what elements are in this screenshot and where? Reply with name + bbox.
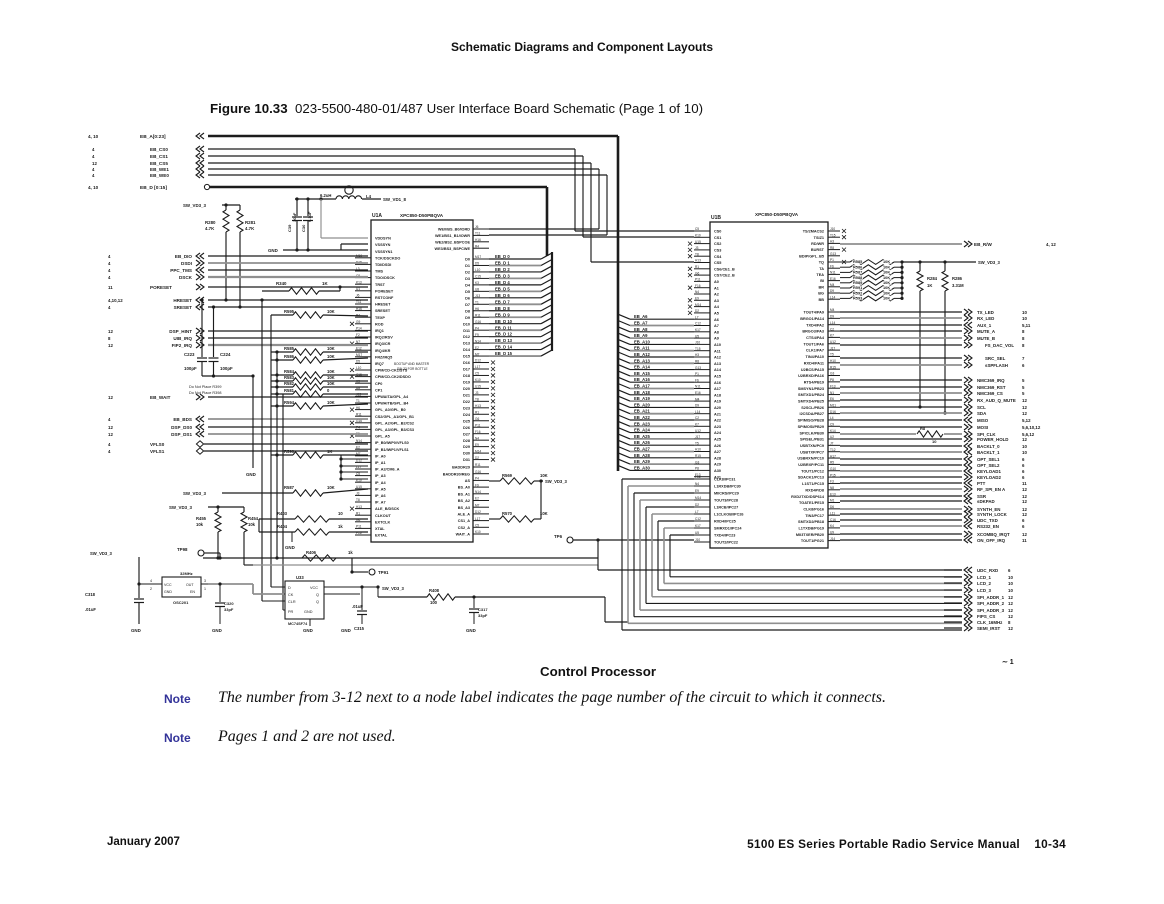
svg-text:EB_WAIT: EB_WAIT: [150, 395, 171, 400]
wire EB_A23: [630, 425, 694, 427]
net label NMC369_RST: [840, 386, 962, 388]
svg-text:GPL_A3/GPL_B3/CS3: GPL_A3/GPL_B3/CS3: [375, 428, 414, 432]
svg-text:RX_LED: RX_LED: [977, 316, 994, 321]
svg-text:IRQ7: IRQ7: [375, 362, 384, 366]
svg-text:4: 4: [108, 449, 111, 454]
svg-text:GND: GND: [285, 545, 295, 550]
svg-text:K3: K3: [475, 281, 479, 285]
svg-text:C320: C320: [224, 601, 234, 606]
svg-text:10K: 10K: [327, 354, 335, 359]
svg-text:D9: D9: [465, 316, 470, 320]
svg-text:E16: E16: [695, 391, 701, 395]
wire EB_CS0 to U1B: [575, 230, 694, 232]
svg-text:EB_A22: EB_A22: [634, 415, 650, 420]
svg-text:1k: 1k: [348, 550, 353, 555]
svg-text:F13: F13: [830, 384, 836, 388]
svg-text:100pF: 100pF: [184, 366, 197, 371]
svg-text:4.7K: 4.7K: [245, 226, 255, 231]
svg-text:T8: T8: [356, 498, 360, 502]
svg-text:U5: U5: [695, 334, 699, 338]
net label FS_DAC_VOL: [840, 344, 962, 346]
svg-text:M4: M4: [830, 283, 835, 287]
svg-text:EB_A30: EB_A30: [634, 465, 650, 470]
wire EB_A21: [630, 413, 694, 415]
svg-text:0: 0: [327, 388, 330, 393]
wire osc out: [208, 583, 253, 585]
svg-text:D22: D22: [463, 400, 470, 404]
wire rail B: [270, 315, 272, 587]
svg-text:M17: M17: [356, 353, 362, 357]
svg-text:A23: A23: [714, 425, 721, 429]
svg-text:E12: E12: [356, 346, 362, 350]
wire EB_D10: [489, 323, 541, 325]
svg-text:C2: C2: [830, 327, 834, 331]
svg-text:11: 11: [1022, 538, 1027, 543]
net label KEYLOAD1: [840, 470, 962, 472]
svg-text:CLK1/PA7: CLK1/PA7: [806, 349, 824, 353]
svg-text:1k: 1k: [338, 524, 343, 529]
svg-text:KEYLOAD2: KEYLOAD2: [977, 475, 1001, 480]
bus join EB_A19: [618, 396, 630, 401]
wire EB_A20: [630, 406, 694, 408]
wire EB_A bus horizontal: [208, 135, 618, 138]
svg-text:A26: A26: [714, 444, 721, 448]
svg-text:5: 5: [1022, 391, 1025, 396]
op IC U1A outline: [371, 220, 473, 542]
svg-text:R596: R596: [284, 449, 295, 454]
svg-text:D10: D10: [463, 322, 470, 326]
svg-text:4: 4: [92, 147, 95, 152]
svg-text:EB_D 12: EB_D 12: [495, 332, 513, 337]
svg-text:D6: D6: [830, 505, 834, 509]
wire EB_D11: [489, 329, 541, 331]
svg-text:R5: R5: [830, 461, 834, 465]
svg-text:R1: R1: [356, 511, 360, 515]
svg-text:D16: D16: [463, 361, 470, 365]
svg-text:R8: R8: [920, 426, 926, 431]
svg-text:XPC850-D50PBQVA: XPC850-D50PBQVA: [755, 212, 799, 217]
svg-text:TDO/DSCK: TDO/DSCK: [375, 276, 395, 280]
svg-text:BS_A0: BS_A0: [458, 486, 470, 490]
bus join EB_A21: [618, 409, 630, 414]
svg-text:D3: D3: [465, 277, 470, 281]
svg-text:12: 12: [1022, 512, 1027, 517]
svg-text:TS/2MACS2: TS/2MACS2: [803, 230, 824, 234]
svg-text:USBTXN/PC9: USBTXN/PC9: [800, 444, 824, 448]
svg-text:12: 12: [1008, 626, 1013, 631]
svg-text:BG: BG: [818, 292, 824, 296]
svg-text:EB_D 10: EB_D 10: [495, 319, 513, 324]
resistor R591: [840, 287, 850, 289]
svg-text:D6: D6: [465, 296, 470, 300]
svg-text:SPI_ADDR_3: SPI_ADDR_3: [977, 608, 1005, 613]
svg-text:H13: H13: [695, 259, 701, 263]
svg-text:L10: L10: [475, 268, 481, 272]
svg-text:EB_D 7: EB_D 7: [495, 299, 510, 304]
wire bundle 0: [622, 478, 694, 480]
bus join EB_D3: [541, 272, 552, 278]
svg-text:L14: L14: [830, 295, 836, 299]
svg-text:5,12: 5,12: [1022, 418, 1031, 423]
svg-text:12: 12: [1022, 405, 1027, 410]
svg-text:FIPS_CS: FIPS_CS: [977, 614, 995, 619]
wire EB_D bus horizontal: [210, 186, 547, 189]
wire EB_D0: [489, 258, 541, 260]
svg-text:U5: U5: [695, 531, 699, 535]
bus join EB_D10: [541, 318, 552, 324]
svg-text:EB_A17: EB_A17: [634, 384, 650, 389]
wire EB_A8: [630, 331, 694, 333]
svg-text:R595: R595: [284, 309, 295, 314]
svg-text:4: 4: [150, 579, 152, 583]
footer left: [107, 836, 180, 848]
wire EB_A30: [630, 469, 694, 471]
svg-text:D1: D1: [465, 264, 470, 268]
svg-text:VCC: VCC: [164, 583, 172, 587]
svg-text:C318: C318: [85, 592, 96, 597]
svg-text:E2: E2: [475, 346, 479, 350]
svg-text:N7: N7: [356, 340, 360, 344]
bus join EB_A16: [618, 377, 630, 382]
wire EB_A12: [630, 356, 694, 358]
svg-text:U9: U9: [830, 530, 834, 534]
svg-text:N11: N11: [695, 385, 701, 389]
svg-text:H10: H10: [695, 448, 701, 452]
wire EB_CS1 to U1B: [583, 236, 694, 238]
svg-text:A30: A30: [714, 469, 721, 473]
svg-text:EB_A10: EB_A10: [634, 339, 650, 344]
svg-text:ALE_B/DSCK: ALE_B/DSCK: [375, 507, 400, 511]
svg-text:FIP2_IRQ: FIP2_IRQ: [172, 343, 193, 348]
svg-text:M14: M14: [475, 449, 481, 453]
svg-text:CS3: CS3: [714, 249, 721, 253]
net label XCOMBQ_IRQT: [840, 533, 962, 535]
svg-text:CS1_A: CS1_A: [458, 519, 470, 523]
bus join EB_D8: [541, 305, 552, 311]
resistor R592: [840, 292, 850, 294]
svg-text:IP_A0: IP_A0: [375, 454, 386, 458]
svg-text:UDC_RXD: UDC_RXD: [977, 568, 998, 573]
net label sDKPAD: [840, 500, 962, 502]
svg-text:SRC_SEL: SRC_SEL: [985, 356, 1006, 361]
svg-text:4: 4: [108, 442, 111, 447]
net label TX_LED: [840, 311, 962, 313]
svg-text:R570: R570: [502, 511, 513, 516]
net label SEMI_IRST: [964, 625, 972, 631]
svg-text:K17: K17: [695, 524, 701, 528]
net label OPT_SEL1: [840, 458, 962, 460]
svg-text:F16: F16: [475, 430, 481, 434]
svg-text:IP_B0/IWP0/VFLS0: IP_B0/IWP0/VFLS0: [375, 441, 409, 445]
svg-text:T5: T5: [830, 353, 834, 357]
svg-text:IP_A3: IP_A3: [375, 474, 386, 478]
svg-text:D14: D14: [463, 348, 471, 352]
svg-text:R586: R586: [284, 354, 295, 359]
svg-text:P4: P4: [356, 426, 360, 430]
svg-text:HRESET: HRESET: [375, 303, 391, 307]
svg-text:T12: T12: [830, 448, 836, 452]
svg-text:T1: T1: [475, 300, 479, 304]
svg-text:RD/WR: RD/WR: [811, 242, 824, 246]
svg-text:D0: D0: [465, 258, 470, 262]
svg-text:K7: K7: [830, 334, 834, 338]
svg-text:NMC369_CS: NMC369_CS: [977, 391, 1003, 396]
svg-text:BRGO1/PA14: BRGO1/PA14: [800, 317, 825, 321]
svg-text:D11: D11: [463, 329, 470, 333]
svg-text:R11: R11: [356, 412, 362, 416]
svg-text:D24: D24: [463, 413, 471, 417]
svg-text:T8: T8: [695, 252, 699, 256]
svg-text:C15: C15: [475, 275, 481, 279]
svg-text:32MHz: 32MHz: [180, 571, 193, 576]
svg-text:J14: J14: [830, 537, 835, 541]
svg-text:L1RXDB/IPC30: L1RXDB/IPC30: [714, 485, 741, 489]
svg-text:N4: N4: [475, 436, 479, 440]
svg-text:CS2: CS2: [714, 242, 721, 246]
svg-text:R593: R593: [853, 296, 863, 301]
svg-text:IRQ2/RSV: IRQ2/RSV: [375, 336, 393, 340]
svg-text:PORESET: PORESET: [375, 289, 394, 293]
svg-text:RTS4/PB19: RTS4/PB19: [804, 380, 824, 384]
svg-text:K10: K10: [475, 378, 481, 382]
svg-text:L14: L14: [830, 321, 836, 325]
svg-text:EXTCLK: EXTCLK: [375, 520, 390, 524]
svg-text:L1CLKOB/IPC26: L1CLKOB/IPC26: [714, 513, 744, 517]
svg-text:M4: M4: [695, 397, 700, 401]
svg-text:D29: D29: [463, 445, 470, 449]
svg-text:TEA: TEA: [816, 273, 824, 277]
svg-text:SDACK1/PC13: SDACK1/PC13: [798, 476, 824, 480]
note 1: [164, 692, 191, 706]
svg-text:EB_A11: EB_A11: [634, 346, 650, 351]
wire bundle 4: [646, 506, 694, 508]
svg-text:E13: E13: [830, 492, 836, 496]
svg-text:D18: D18: [463, 374, 470, 378]
svg-text:PPC_TMS: PPC_TMS: [170, 268, 192, 273]
wire EB_D13: [489, 342, 541, 344]
svg-text:SW_VD3_3: SW_VD3_3: [978, 260, 1001, 265]
svg-text:TGATE1/PE15: TGATE1/PE15: [799, 501, 824, 505]
wire EB_A26: [630, 444, 694, 446]
svg-text:L3: L3: [356, 267, 360, 271]
svg-text:4, 10: 4, 10: [88, 134, 99, 139]
svg-text:EB_D 6: EB_D 6: [495, 293, 510, 298]
bus join EB_D6: [541, 292, 552, 298]
svg-text:C5: C5: [475, 524, 479, 528]
bus join EB_A24: [618, 428, 630, 433]
bus join EB_D1: [541, 259, 552, 265]
wire EB_A29: [630, 463, 694, 465]
svg-text:CS2/GPL_A1/GPL_B1: CS2/GPL_A1/GPL_B1: [375, 415, 414, 419]
svg-text:N4: N4: [695, 290, 699, 294]
wire EB_A bus vertical: [617, 136, 620, 471]
svg-text:10: 10: [1022, 450, 1027, 455]
svg-text:12: 12: [92, 161, 97, 166]
svg-text:XTAL: XTAL: [375, 527, 385, 531]
svg-text:J10: J10: [695, 538, 700, 542]
wire EB_A16: [630, 381, 694, 383]
svg-text:MII3TXER/PB20: MII3TXER/PB20: [796, 533, 824, 537]
net label SSR: [840, 495, 962, 497]
svg-text:6.2uH: 6.2uH: [320, 193, 331, 198]
svg-text:R585: R585: [284, 346, 295, 351]
net label MISO: [840, 419, 962, 421]
svg-text:8: 8: [1022, 343, 1025, 348]
svg-text:EB_D 9: EB_D 9: [495, 312, 510, 317]
svg-text:TMS: TMS: [375, 270, 383, 274]
svg-text:AS: AS: [465, 479, 471, 483]
svg-text:E6: E6: [830, 397, 834, 401]
net label AUX_1: [840, 324, 962, 326]
svg-text:D27: D27: [463, 432, 470, 436]
svg-text:10: 10: [1008, 588, 1013, 593]
svg-text:EB_A24: EB_A24: [634, 428, 650, 433]
svg-text:BACKLT_0: BACKLT_0: [977, 444, 1000, 449]
svg-text:J10: J10: [695, 341, 700, 345]
svg-text:SW_VD3_3: SW_VD3_3: [169, 505, 192, 510]
svg-text:CP1: CP1: [375, 388, 382, 392]
resistor R585: [840, 261, 850, 263]
svg-text:SPI_ADDR_1: SPI_ADDR_1: [977, 595, 1005, 600]
svg-text:M4: M4: [830, 308, 835, 312]
svg-text:R15: R15: [695, 454, 701, 458]
net label LCD_1: [964, 574, 972, 580]
wire EB_D14: [489, 349, 541, 351]
svg-text:J3: J3: [475, 391, 479, 395]
svg-text:TDI/DSDI: TDI/DSDI: [375, 263, 391, 267]
wire bundle 7: [664, 527, 694, 529]
svg-text:6: 6: [1022, 524, 1025, 529]
bus join EB_A15: [618, 371, 630, 376]
svg-text:VCC: VCC: [310, 586, 318, 590]
op IC U1B outline: [710, 222, 828, 548]
svg-text:P1: P1: [695, 372, 699, 376]
svg-text:D7: D7: [465, 303, 470, 307]
svg-text:EB_A26: EB_A26: [634, 440, 650, 445]
svg-text:10: 10: [1008, 575, 1013, 580]
svg-text:8: 8: [108, 336, 111, 341]
svg-text:G3: G3: [695, 460, 699, 464]
svg-text:TIN3/PC17: TIN3/PC17: [805, 514, 824, 518]
svg-text:D5: D5: [465, 290, 470, 294]
svg-text:4: 4: [108, 417, 111, 422]
svg-text:L11: L11: [830, 511, 835, 515]
note 2: [164, 731, 191, 745]
net SW_VD1_8: [362, 198, 381, 200]
svg-text:OUT: OUT: [186, 583, 194, 587]
svg-text:D5: D5: [356, 360, 360, 364]
svg-text:K7: K7: [695, 423, 699, 427]
svg-text:K10: K10: [475, 530, 481, 534]
svg-text:J17: J17: [695, 435, 700, 439]
svg-text:D30: D30: [463, 452, 470, 456]
svg-text:XCOMBQ_IRQT: XCOMBQ_IRQT: [977, 532, 1010, 537]
svg-text:EB_D 4: EB_D 4: [495, 280, 510, 285]
wire bundle 6: [658, 520, 694, 522]
svg-text:SW_VD3_3: SW_VD3_3: [545, 479, 568, 484]
svg-text:SCL: SCL: [977, 405, 986, 410]
svg-text:CS5: CS5: [714, 261, 721, 265]
svg-text:H3: H3: [695, 353, 699, 357]
svg-text:R587: R587: [284, 485, 295, 490]
wire TP6 branch: [597, 540, 599, 558]
wire EB_CS0: [208, 148, 575, 150]
svg-text:A16: A16: [714, 381, 721, 385]
svg-text:EB_A[0:23]: EB_A[0:23]: [140, 134, 166, 140]
svg-text:WAIT_A: WAIT_A: [456, 533, 471, 537]
bus join EB_D11: [541, 324, 552, 330]
svg-text:R1: R1: [695, 265, 699, 269]
svg-text:SW_VD3_3: SW_VD3_3: [183, 491, 206, 496]
net label RX_AUD_Q_MUTE: [840, 399, 962, 401]
svg-text:A3: A3: [714, 299, 719, 303]
wire bundle 2: [634, 492, 694, 494]
wire bundle 8: [670, 534, 694, 536]
svg-text:12: 12: [1022, 437, 1027, 442]
svg-text:SPI_ADDR_2: SPI_ADDR_2: [977, 601, 1005, 606]
svg-text:EB_CS1: EB_CS1: [150, 154, 168, 159]
svg-text:H6: H6: [356, 406, 360, 410]
svg-text:A0: A0: [714, 280, 719, 284]
svg-text:UIB_IRQ: UIB_IRQ: [173, 336, 192, 341]
svg-text:TEXP: TEXP: [375, 316, 385, 320]
svg-text:E2: E2: [475, 497, 479, 501]
svg-text:CK: CK: [288, 593, 294, 597]
svg-text:SW_VD3_3: SW_VD3_3: [183, 203, 206, 208]
svg-text:MUTE_B: MUTE_B: [977, 336, 995, 341]
svg-text:EB_A16: EB_A16: [634, 377, 650, 382]
svg-text:SMTXD2/PB18: SMTXD2/PB18: [798, 520, 824, 524]
svg-text:D21: D21: [463, 393, 470, 397]
svg-text:10: 10: [1022, 316, 1027, 321]
svg-text:R280: R280: [205, 220, 216, 225]
svg-text:VFLS1: VFLS1: [150, 449, 165, 454]
svg-text:IP_A2/CM6_A: IP_A2/CM6_A: [375, 468, 400, 472]
wire bundle 5: [652, 513, 694, 515]
svg-text:R584: R584: [284, 369, 295, 374]
svg-text:SPIMOSI/PB29: SPIMOSI/PB29: [798, 425, 824, 429]
wire EB_A6: [630, 318, 694, 320]
svg-text:CLR: CLR: [288, 600, 296, 604]
svg-text:A1: A1: [714, 286, 719, 290]
bus join EB_A30: [618, 465, 630, 470]
svg-text:R403: R403: [277, 511, 288, 516]
svg-text:CS7/CE2_B: CS7/CE2_B: [714, 274, 735, 278]
svg-text:EB_A19: EB_A19: [634, 396, 650, 401]
svg-text:IRQ3/CR: IRQ3/CR: [375, 342, 391, 346]
svg-text:C224: C224: [220, 352, 231, 357]
svg-text:EB_A9: EB_A9: [634, 333, 648, 338]
svg-text:D12: D12: [463, 335, 470, 339]
svg-text:J17: J17: [830, 346, 835, 350]
svg-text:L1RCB/IPC27: L1RCB/IPC27: [714, 506, 738, 510]
svg-text:J13: J13: [356, 393, 361, 397]
svg-text:IP_A7: IP_A7: [375, 501, 386, 505]
svg-text:A9: A9: [714, 337, 719, 341]
svg-text:WE1/BS1_B1/IOWR: WE1/BS1_B1/IOWR: [435, 234, 470, 238]
wire EB_D1: [489, 264, 541, 266]
svg-text:D9: D9: [830, 315, 834, 319]
svg-text:4: 4: [108, 254, 111, 259]
svg-text:D13: D13: [463, 342, 470, 346]
svg-text:C9: C9: [830, 423, 834, 427]
svg-text:S2SCL/PB26: S2SCL/PB26: [801, 406, 824, 410]
wire rail D: [282, 394, 284, 610]
svg-text:GND: GND: [466, 628, 476, 633]
svg-text:EB_D 3: EB_D 3: [495, 274, 510, 279]
svg-text:POWER_HOLD: POWER_HOLD: [977, 437, 1008, 442]
svg-text:D15: D15: [463, 355, 470, 359]
